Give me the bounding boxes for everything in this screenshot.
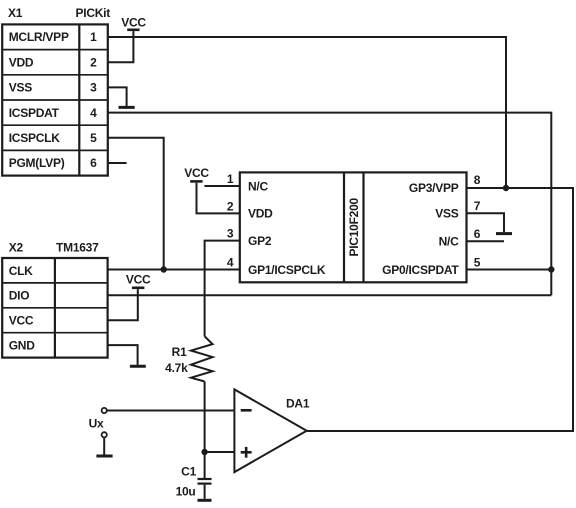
svg-text:VCC: VCC xyxy=(9,314,34,328)
svg-text:6: 6 xyxy=(90,156,97,170)
wire R1 bottom to plus node xyxy=(204,382,206,453)
svg-text:R1: R1 xyxy=(172,345,187,359)
wire U1 pin 5 to DAT bus xyxy=(467,269,552,271)
svg-text:Ux: Ux xyxy=(89,416,104,430)
U1 pin 1 stub xyxy=(204,185,239,187)
wire CLK net X2.CLK to U1 pin 4 xyxy=(108,269,240,271)
ground symbol at U1 VSS xyxy=(496,232,512,235)
ground symbol at X2 GND xyxy=(130,365,146,368)
ground symbol at Ux xyxy=(96,455,112,458)
svg-text:X1: X1 xyxy=(8,6,23,20)
junction MCLR / GP3 xyxy=(503,185,509,191)
ground symbol at C1 xyxy=(198,499,212,502)
svg-text:DA1: DA1 xyxy=(286,397,310,411)
svg-text:CLK: CLK xyxy=(9,264,33,278)
wire X1 pin 3 VSS to ground xyxy=(108,87,127,106)
capacitor C1 top lead xyxy=(204,452,206,478)
wire U1 pin 8 to comparator output xyxy=(307,188,573,431)
wire X1 pin 1 MCLR to node at x506 xyxy=(108,37,506,188)
svg-text:3: 3 xyxy=(227,227,234,241)
svg-text:3: 3 xyxy=(90,81,97,95)
svg-text:5: 5 xyxy=(90,131,97,145)
svg-text:VSS: VSS xyxy=(435,207,459,221)
svg-text:VCC: VCC xyxy=(184,166,209,180)
svg-text:N/C: N/C xyxy=(248,179,269,193)
junction CLK net xyxy=(161,266,167,272)
svg-text:1: 1 xyxy=(90,30,97,44)
svg-text:PGM(LVP): PGM(LVP) xyxy=(9,156,65,170)
wire VCC to X1 pin 2 VDD xyxy=(108,31,133,62)
power VCC symbol at X2 xyxy=(126,273,151,288)
svg-text:GP3/VPP: GP3/VPP xyxy=(409,181,459,195)
svg-text:4: 4 xyxy=(227,256,234,270)
wire Ux return to ground xyxy=(103,437,105,454)
capacitor C1 bottom lead xyxy=(204,485,206,499)
op-amp DA1 triangle xyxy=(234,389,306,472)
svg-text:GP0/ICSPDAT: GP0/ICSPDAT xyxy=(382,263,459,277)
svg-text:DIO: DIO xyxy=(9,289,30,303)
wire U1 pin 3 GP2 down to R1 xyxy=(205,241,240,337)
capacitor C1 plates xyxy=(198,479,212,484)
svg-text:N/C: N/C xyxy=(439,235,460,249)
IC U1 PIC10F200 body xyxy=(240,172,467,282)
ground symbol at X1 VSS xyxy=(119,106,135,109)
svg-text:2: 2 xyxy=(227,199,234,213)
resistor R1 zigzag xyxy=(191,336,213,381)
svg-text:ICSPCLK: ICSPCLK xyxy=(9,131,61,145)
connector X2 body xyxy=(2,258,107,358)
svg-text:7: 7 xyxy=(474,199,481,213)
DA1 minus sign xyxy=(241,409,252,412)
wire X2 GND pin to ground xyxy=(108,345,138,365)
svg-text:2: 2 xyxy=(90,55,97,69)
terminal Ux signal circle xyxy=(102,408,107,413)
svg-text:8: 8 xyxy=(474,173,481,187)
svg-text:VCC: VCC xyxy=(121,16,146,30)
svg-text:5: 5 xyxy=(474,256,481,270)
terminal Ux return circle xyxy=(102,432,107,437)
junction DAT net xyxy=(548,266,554,272)
wire DIO net X2.DIO to DAT bus xyxy=(108,294,552,296)
svg-text:VDD: VDD xyxy=(9,55,34,69)
U1 pin 6 stub xyxy=(467,240,505,242)
svg-text:4: 4 xyxy=(90,106,97,120)
svg-text:TM1637: TM1637 xyxy=(56,240,99,254)
svg-text:X2: X2 xyxy=(9,240,24,254)
wire X1 pin 4 ICSPDAT to right bus xyxy=(108,113,551,296)
power VCC symbol at U1 xyxy=(184,166,209,182)
wire X1 pin 6 stub xyxy=(108,162,127,164)
svg-text:4.7k: 4.7k xyxy=(165,361,188,375)
svg-text:GND: GND xyxy=(9,339,36,353)
svg-text:VCC: VCC xyxy=(126,273,151,287)
svg-text:MCLR/VPP: MCLR/VPP xyxy=(9,30,69,44)
svg-text:GP2: GP2 xyxy=(248,234,272,248)
wire X1 pin 5 ICSPCLK down to CLK net xyxy=(108,138,164,270)
svg-text:10u: 10u xyxy=(176,485,196,499)
junction plus input node xyxy=(201,449,207,455)
DA1 plus sign xyxy=(241,447,252,458)
svg-text:ICSPDAT: ICSPDAT xyxy=(9,106,60,120)
wire Ux to op-amp minus input xyxy=(107,410,235,412)
wire X2 VCC pin to VCC symbol xyxy=(108,289,138,320)
connector X1 body xyxy=(2,24,108,175)
svg-text:VDD: VDD xyxy=(248,207,273,221)
wire plus node to op-amp plus input xyxy=(205,451,235,453)
power VCC symbol top (X1) xyxy=(121,16,146,30)
svg-text:VSS: VSS xyxy=(9,81,33,95)
svg-text:C1: C1 xyxy=(181,465,196,479)
svg-text:PIC10F200: PIC10F200 xyxy=(347,197,361,256)
wire VCC to U1 pin 2 VDD xyxy=(197,183,240,214)
svg-text:6: 6 xyxy=(474,227,481,241)
svg-text:PICKit: PICKit xyxy=(76,6,111,20)
svg-text:GP1/ICSPCLK: GP1/ICSPCLK xyxy=(248,263,326,277)
wire U1 pin 7 VSS to ground xyxy=(467,213,505,232)
svg-text:1: 1 xyxy=(227,172,234,186)
